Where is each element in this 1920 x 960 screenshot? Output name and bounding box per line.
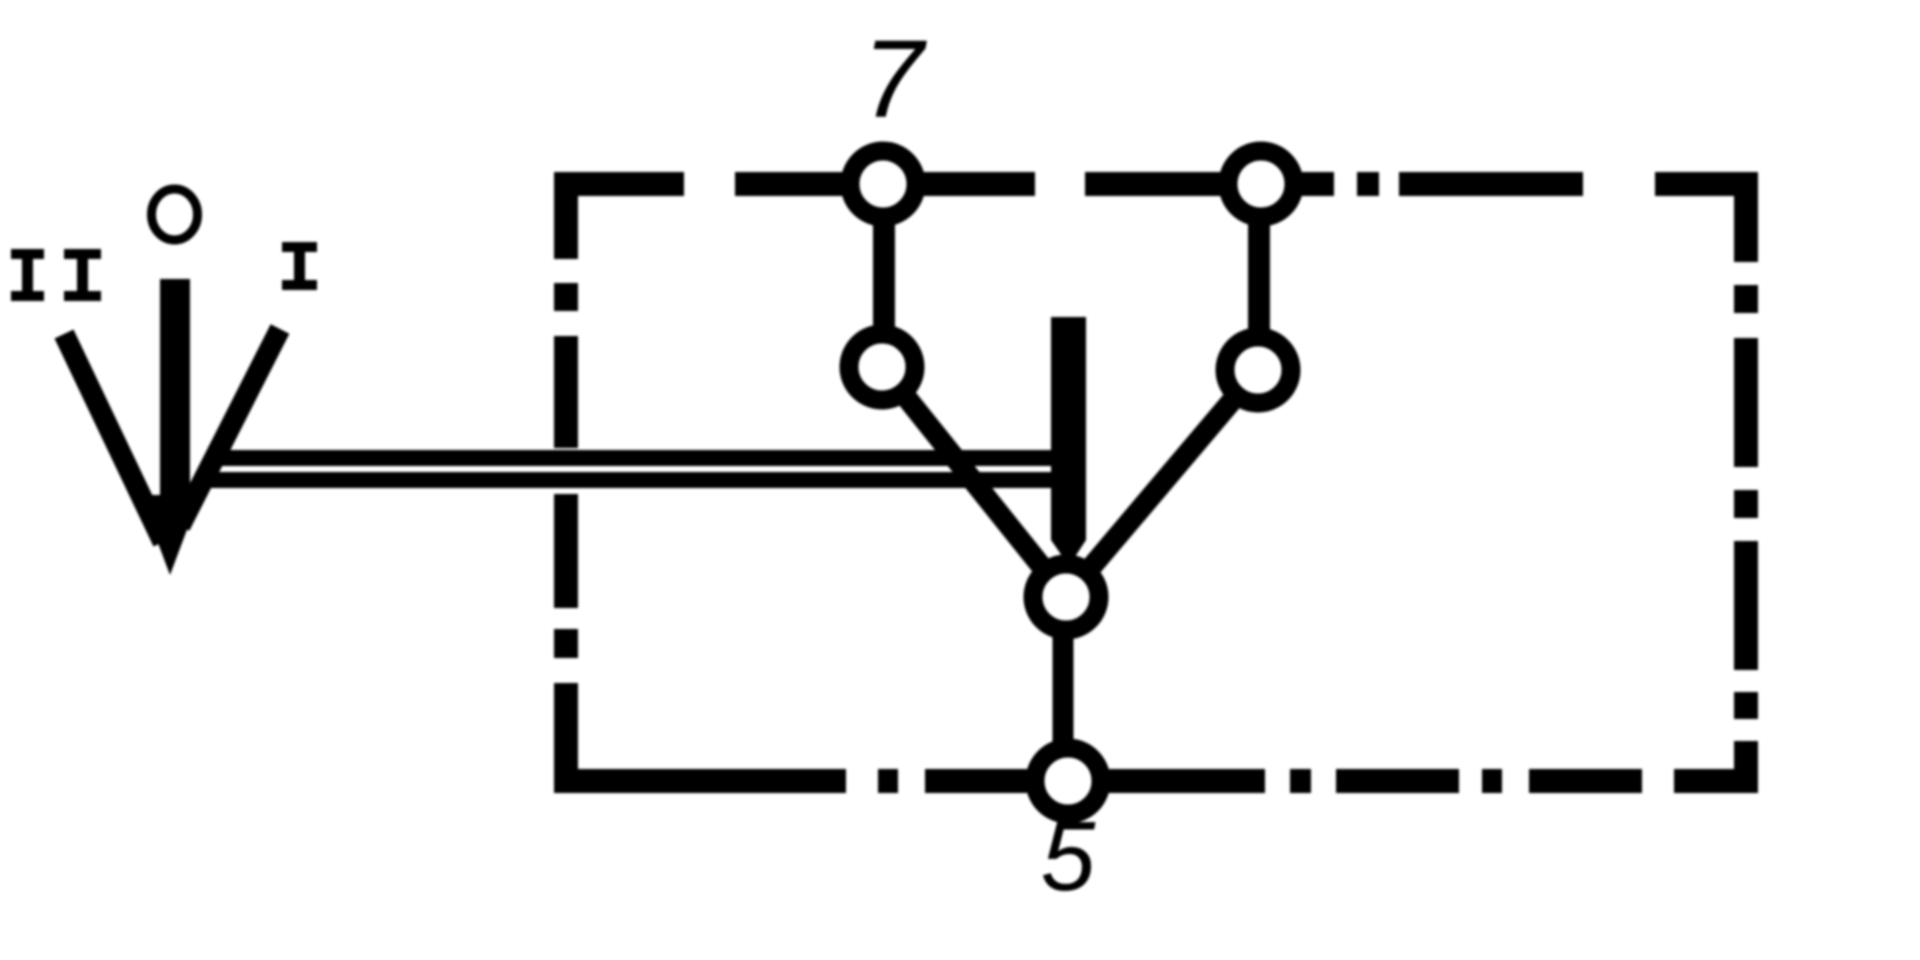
lever right position line xyxy=(180,329,280,526)
linkage double line bottom xyxy=(206,472,1052,488)
lever arrow head xyxy=(140,495,200,575)
contact circle mid-right xyxy=(1225,337,1291,403)
enclosure border top xyxy=(555,172,1746,196)
pivot contact circle xyxy=(1033,564,1099,630)
contact circle top-right xyxy=(1228,151,1294,217)
contact circle terminal 5 xyxy=(1035,748,1101,814)
linkage double line top xyxy=(218,450,1052,466)
enclosure border left xyxy=(554,172,578,793)
label II (position 2 marker) xyxy=(11,249,101,301)
contact circle terminal 7 xyxy=(850,151,916,217)
wire pivot to terminal 5 xyxy=(1053,597,1074,781)
label 0 (off position marker) xyxy=(152,189,198,240)
movable arm left (from upper-left contact to pivot) xyxy=(882,367,1066,597)
wire top-right contact to fixed contact mid-right xyxy=(1248,195,1270,350)
label I (position 1 marker) xyxy=(282,242,317,290)
svg-text:7: 7 xyxy=(862,18,927,141)
contact circle upper-left xyxy=(849,334,915,400)
enclosure border right xyxy=(1734,172,1758,793)
actuator bar xyxy=(1051,317,1086,566)
wire terminal 7 contact to fixed contact upper-left xyxy=(873,195,895,345)
lever arrow shaft xyxy=(160,279,190,504)
enclosure border bottom xyxy=(555,769,1757,793)
movable arm right (from mid-right contact to pivot) xyxy=(1066,370,1258,597)
svg-text:5: 5 xyxy=(1041,801,1096,911)
lever left position line xyxy=(64,334,163,542)
